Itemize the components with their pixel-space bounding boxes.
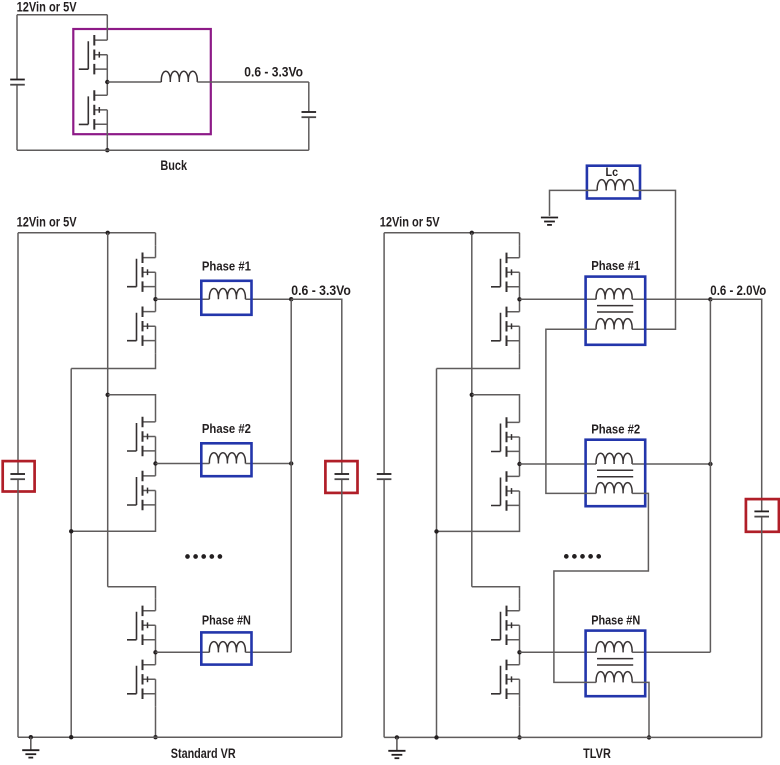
inductor StdVR Phase #N [209, 642, 245, 653]
capacitor TLVR output cap [754, 511, 769, 516]
ground TLVR [388, 751, 405, 758]
node TLVR phN phase junction [517, 650, 521, 654]
svg-text:12Vin or 5V: 12Vin or 5V [380, 215, 440, 230]
dots ellipsis StdVR (more phases) [185, 554, 222, 559]
wire TLVR ground stem [396, 737, 398, 750]
inductor TLVR ph1 secondary winding [596, 319, 632, 330]
node TLVR out bus ph2 [708, 462, 712, 466]
svg-text:Phase #2: Phase #2 [202, 422, 251, 436]
wire StdVR output branch upper [291, 299, 342, 473]
core transformer TLVR ph1 [597, 306, 633, 312]
wire TLVR ph2 source return [437, 518, 520, 531]
wire TLVR bottom return [384, 736, 762, 738]
box blue transformer outline TLVR Phase #N [586, 631, 646, 697]
wire TLVR output branch upper [710, 299, 761, 510]
wire StdVR phN node to inductor [156, 651, 210, 653]
box blue inductor outline StdVR Phase #N [201, 632, 251, 664]
node StdVR phN return junction [153, 735, 157, 739]
capacitor StdVR input cap [10, 474, 25, 479]
inductor Lc [597, 180, 633, 191]
box blue transformer outline TLVR Phase #2 [586, 440, 646, 507]
box red output-cap highlight (TLVR) [746, 499, 779, 532]
transistor TLVR phN low-side MOSFET [491, 652, 520, 706]
box red input-cap highlight (StdVR) [3, 461, 35, 491]
node TLVR bus tap top [470, 231, 474, 235]
svg-text:Standard VR: Standard VR [171, 746, 236, 761]
wire TLVR phN node to primary [520, 651, 597, 653]
wire TLVR input bus [471, 233, 473, 587]
wire StdVR phN source return [155, 706, 157, 737]
transistor StdVR ph2 high-side MOSFET [127, 410, 156, 464]
svg-text:Phase #2: Phase #2 [591, 422, 640, 436]
wire TLVR ph2 primary to out bus [632, 463, 710, 465]
wire StdVR ph1 node to inductor [156, 298, 210, 300]
wire TLVR ph2 drain feed [472, 395, 520, 410]
wire StdVR ph2 node to inductor [156, 463, 210, 465]
transistor StdVR phN high-side MOSFET [127, 598, 156, 652]
node TLVR phN return junction [517, 735, 521, 739]
wire Buck phase to inductor [107, 81, 161, 83]
wire StdVR left rail lower [17, 480, 19, 737]
wire TLVR output bus [709, 299, 711, 652]
node StdVR bus tap top [106, 231, 110, 235]
inductor TLVR phN secondary winding [596, 672, 632, 683]
node StdVR ph1 phase junction [153, 297, 157, 301]
node Buck phase junction [105, 80, 109, 84]
wire Buck left rail upper [16, 15, 18, 79]
inductor TLVR ph2 primary winding [596, 453, 632, 464]
wire StdVR input bus [107, 233, 109, 587]
core transformer TLVR phN [597, 659, 633, 665]
node StdVR out bus ph1 [289, 297, 293, 301]
node TLVR ph2 phase junction [517, 462, 521, 466]
node StdVR ground tap [29, 735, 33, 739]
wire StdVR ph1 inductor to out bus [245, 298, 291, 300]
transistor TLVR ph2 high-side MOSFET [491, 410, 520, 464]
inductor StdVR Phase #2 [209, 453, 245, 464]
wire TLVR phN secondary to return [632, 682, 649, 737]
node Buck return junction [105, 148, 109, 152]
wire TLVR ph1 secondary to ph2 secondary [546, 329, 596, 493]
node TLVR out bus ph1 [708, 297, 712, 301]
transistor TLVR ph1 high-side MOSFET [491, 245, 520, 299]
svg-text:0.6 - 3.3Vo: 0.6 - 3.3Vo [291, 283, 351, 298]
wire Buck bottom return [17, 149, 309, 151]
capacitor Buck input cap [10, 80, 25, 85]
wire StdVR bottom return [18, 736, 342, 738]
dots ellipsis TLVR (more phases) [564, 554, 601, 559]
node StdVR out bus ph2 [289, 461, 293, 465]
node StdVR phN phase junction [153, 650, 157, 654]
capacitor TLVR input cap [377, 474, 392, 479]
node TLVR ph2 return junction [434, 529, 438, 533]
wire StdVR phN inductor to out bus [245, 651, 291, 653]
wire TLVR ph2 node to primary [520, 463, 597, 465]
core transformer TLVR ph2 [597, 470, 633, 476]
wire Buck output drop upper [308, 82, 310, 111]
wire StdVR ph2 source return [71, 518, 155, 532]
svg-text:Phase #N: Phase #N [202, 614, 251, 628]
wire StdVR top input [18, 232, 156, 234]
wire TLVR left rail upper [383, 233, 385, 473]
node TLVR ground tap [395, 735, 399, 739]
wire TLVR ground bus [436, 369, 438, 738]
wire TLVR phN source return [519, 706, 521, 737]
svg-text:TLVR: TLVR [583, 746, 611, 761]
wire Buck inductor to output [197, 81, 308, 83]
wire TLVR output branch lower [761, 517, 763, 737]
node TLVR secondary return junction [647, 735, 651, 739]
wire Buck left rail lower [16, 86, 18, 151]
node TLVR ph1 phase junction [517, 297, 521, 301]
capacitor StdVR output cap [335, 474, 350, 479]
box blue inductor outline StdVR Phase #1 [201, 281, 251, 315]
box blue inductor outline StdVR Phase #2 [201, 443, 251, 476]
inductor TLVR phN primary winding [596, 642, 632, 653]
wire Buck Q2 source to return [106, 137, 108, 150]
box purple half-bridge outline (Buck) [73, 29, 211, 134]
wire Buck top input [17, 14, 107, 16]
wire TLVR left rail lower [383, 480, 385, 738]
inductor TLVR ph2 secondary winding [596, 483, 632, 494]
inductor L1 (Buck) [161, 71, 197, 82]
wire Buck Q1 drain feed [106, 15, 108, 29]
wire TLVR phN primary to out bus [632, 651, 710, 653]
svg-text:12Vin or 5V: 12Vin or 5V [17, 0, 77, 15]
wire StdVR ph2 drain feed [108, 395, 156, 410]
transistor Q2 low-side MOSFET (Buck) [79, 83, 108, 137]
wire StdVR ph2 inductor to out bus [245, 463, 291, 465]
wire StdVR output bus [290, 299, 292, 652]
transistor StdVR ph1 high-side MOSFET [127, 245, 156, 299]
svg-text:0.6 - 3.3Vo: 0.6 - 3.3Vo [244, 65, 303, 80]
box blue Lc outline [587, 166, 640, 199]
transistor StdVR ph1 low-side MOSFET [127, 299, 156, 353]
wire StdVR left rail upper [17, 233, 19, 473]
node StdVR ph2 return junction [69, 529, 73, 533]
transistor Q1 high-side MOSFET (Buck) [79, 28, 108, 82]
transistor TLVR ph2 low-side MOSFET [491, 464, 520, 518]
node StdVR ph2 input tap [106, 393, 110, 397]
wire Lc to ground [550, 190, 598, 216]
wire Lc to ph1 secondary [632, 190, 675, 329]
wire StdVR output branch lower [341, 480, 343, 737]
wire StdVR ph1 source return [71, 353, 155, 368]
wire StdVR ground bus [70, 369, 72, 738]
wire TLVR ph1 primary to out bus [632, 298, 710, 300]
node TLVR gnd bus bottom junction [434, 735, 438, 739]
wire TLVR ph1 source return [437, 353, 520, 368]
wire TLVR ph2 secondary to phN secondary [554, 493, 649, 682]
capacitor Buck output cap [302, 112, 317, 117]
box blue transformer outline TLVR Phase #1 [586, 277, 646, 345]
transistor StdVR ph2 low-side MOSFET [127, 464, 156, 518]
wire StdVR phN drain feed [108, 587, 156, 599]
svg-text:Phase #1: Phase #1 [591, 259, 640, 273]
transistor TLVR phN high-side MOSFET [491, 598, 520, 652]
node StdVR ph2 phase junction [153, 461, 157, 465]
node StdVR gnd bus bottom junction [69, 735, 73, 739]
wire StdVR ground stem [30, 737, 32, 750]
svg-text:Lc: Lc [606, 165, 619, 179]
node TLVR ph2 input tap [470, 393, 474, 397]
inductor TLVR ph1 primary winding [596, 289, 632, 300]
svg-text:0.6 - 2.0Vo: 0.6 - 2.0Vo [710, 283, 766, 298]
box red output-cap highlight (StdVR) [325, 461, 357, 493]
svg-text:Buck: Buck [160, 158, 187, 173]
transistor TLVR ph1 low-side MOSFET [491, 299, 520, 353]
wire TLVR phN drain feed [472, 587, 520, 599]
svg-text:Phase #N: Phase #N [591, 613, 640, 627]
inductor StdVR Phase #1 [209, 288, 245, 299]
wire Buck output drop lower [308, 118, 310, 150]
wire StdVR ph1 drain feed [155, 233, 157, 245]
wire TLVR top input [384, 232, 519, 234]
svg-text:Phase #1: Phase #1 [202, 259, 251, 273]
ground StdVR [22, 750, 39, 757]
wire TLVR ph1 drain feed [519, 233, 521, 246]
svg-text:12Vin or 5V: 12Vin or 5V [17, 215, 77, 230]
ground Lc [541, 218, 558, 225]
transistor StdVR phN low-side MOSFET [127, 652, 156, 706]
wire TLVR ph1 node to primary [520, 298, 597, 300]
